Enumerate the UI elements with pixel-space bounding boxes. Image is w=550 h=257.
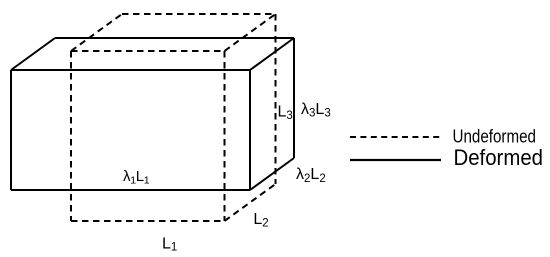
- undeformed box front top edge: [71, 50, 225, 52]
- undeformed box (dashed): [71, 14, 276, 221]
- undeformed box front left edge: [70, 51, 72, 221]
- deformed box front bottom edge: [11, 189, 250, 191]
- deformed box bottom-right depth edge: [250, 158, 294, 190]
- legend solid sample line: [350, 159, 441, 161]
- svg-text:Deformed: Deformed: [454, 145, 544, 170]
- deformed box top-left depth edge: [11, 38, 55, 70]
- deformed box front right edge: [249, 70, 251, 190]
- undeformed box top-right depth edge: [225, 14, 276, 51]
- deformed box top-right depth edge: [250, 38, 294, 70]
- undeformed box top-left depth edge: [71, 14, 122, 51]
- deformed box back right vertical edge: [293, 38, 295, 158]
- deformed box top back edge: [55, 37, 294, 39]
- undeformed box bottom-right depth edge: [225, 184, 276, 221]
- undeformed box front right edge: [224, 51, 226, 221]
- legend dashed sample line: [350, 136, 440, 138]
- deformed box: front face outline (solid): [11, 38, 294, 190]
- undeformed box front bottom edge: [71, 220, 225, 222]
- deformed box front top edge: [11, 69, 250, 71]
- deformed box front left edge: [10, 70, 12, 190]
- svg-text:Undeformed: Undeformed: [453, 126, 537, 146]
- undeformed box top back edge: [122, 13, 276, 15]
- undeformed box back right vertical edge: [275, 14, 277, 184]
